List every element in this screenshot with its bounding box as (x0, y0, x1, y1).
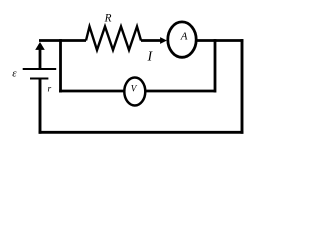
wire: resistor to ammeter (141, 39, 161, 42)
wire: top horizontal, battery node to resistor (39, 39, 86, 42)
current arrow head (160, 37, 167, 44)
ammeter A (168, 22, 196, 57)
wire: bottom horizontal (39, 131, 244, 134)
svg-text:R: R (104, 13, 112, 25)
svg-text:r: r (47, 84, 51, 94)
wire: ammeter to top-right corner (196, 39, 243, 42)
wire: inner loop right vertical (214, 39, 217, 92)
wire: right vertical (241, 39, 244, 134)
battery positive plate (long) (23, 68, 57, 70)
wire: left vertical, bottom corner up to battery (39, 79, 42, 134)
wire: inner loop left vertical (59, 39, 62, 92)
emf arrow head (up) (35, 42, 45, 50)
resistor R (zigzag) (86, 27, 141, 51)
svg-text:I: I (146, 49, 153, 64)
svg-text:A: A (180, 31, 188, 43)
wire: voltmeter right lead (145, 90, 215, 93)
svg-text:ε: ε (12, 67, 17, 79)
wire: voltmeter left lead (59, 90, 125, 93)
voltmeter V (124, 78, 145, 106)
battery negative plate (short) (30, 78, 48, 80)
battery top lead wire (39, 44, 42, 69)
